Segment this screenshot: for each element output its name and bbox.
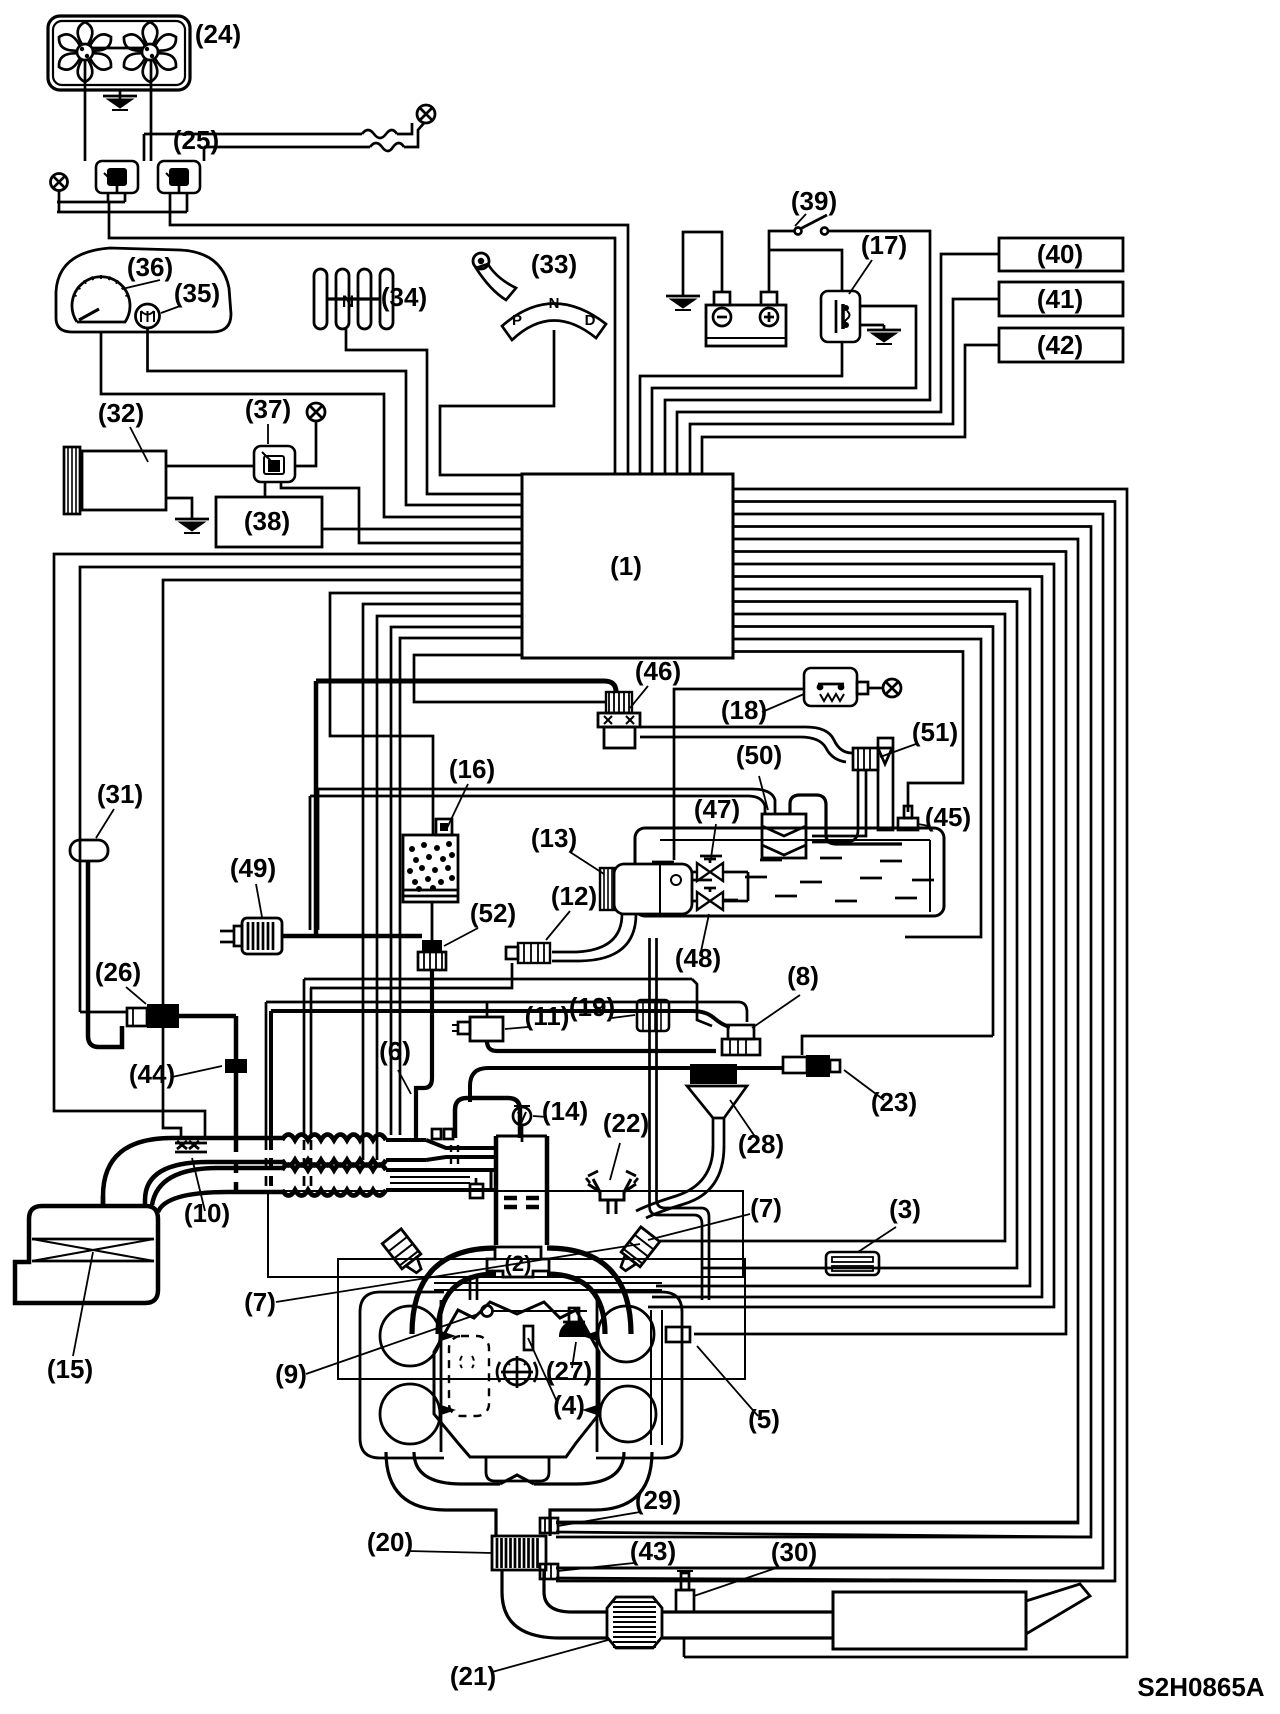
wire (12) down xyxy=(310,963,512,988)
noise relay (37) xyxy=(254,446,295,482)
svg-text:(4): (4) xyxy=(553,1390,585,1420)
leader (52) xyxy=(444,928,478,946)
leader (17) xyxy=(849,260,872,294)
hose (51) to tank xyxy=(812,770,866,842)
radio unit (32) xyxy=(82,451,166,510)
hose (11) down xyxy=(487,1041,716,1051)
svg-text:(3): (3) xyxy=(889,1194,921,1224)
fuel pump connector (45) xyxy=(898,806,918,830)
wire (29) a xyxy=(556,1521,1078,1524)
hose (13) to (12) xyxy=(552,914,636,961)
fan relay 1 (25) xyxy=(96,161,138,193)
wire ECU to canister (16) xyxy=(330,593,522,835)
bundle engine wire 2 xyxy=(656,589,1030,1286)
tailpipe xyxy=(1026,1584,1090,1634)
vacuum row 2 xyxy=(310,988,313,1190)
wire ECU to solenoid (46) xyxy=(414,655,605,702)
injector (7) left xyxy=(382,1229,428,1278)
svg-text:(34): (34) xyxy=(381,282,427,312)
svg-text:(14): (14) xyxy=(542,1096,588,1126)
svg-text:(37): (37) xyxy=(245,394,291,424)
leader (23) xyxy=(844,1070,884,1100)
leader (31) xyxy=(96,809,114,838)
bundle (23) wire xyxy=(733,627,993,1037)
sensor on lower duct xyxy=(470,1178,483,1198)
wire ECU to throttle b xyxy=(377,616,522,1160)
leader (10) xyxy=(192,1158,205,1211)
catalytic converter (21) xyxy=(607,1597,662,1648)
svg-text:(25): (25) xyxy=(173,125,219,155)
leader (47) xyxy=(711,824,716,858)
fuel tank xyxy=(635,828,944,916)
wire fan right to relay xyxy=(150,60,153,161)
pipe to muffler xyxy=(662,1612,833,1638)
bundle (43) wire b xyxy=(556,502,1115,1582)
label (31) xyxy=(97,779,143,809)
svg-text:(49): (49) xyxy=(230,853,276,883)
label (52) xyxy=(470,898,516,928)
capacitor (38) xyxy=(216,497,322,547)
leader (9) xyxy=(306,1313,481,1374)
svg-text:(33): (33) xyxy=(531,249,577,279)
label (9) xyxy=(275,1359,307,1389)
svg-text:(27): (27) xyxy=(546,1356,592,1386)
pipe through (19) xyxy=(650,938,710,1300)
svg-text:(51): (51) xyxy=(912,717,958,747)
wire y979 to (8) xyxy=(692,979,712,1026)
wire (23) right xyxy=(802,1036,993,1055)
bundle (29) wire a xyxy=(556,539,1078,1523)
leader (4) xyxy=(528,1338,558,1404)
label (29) xyxy=(635,1485,681,1515)
solenoid valve (46) xyxy=(598,692,640,748)
bundle engine wire 3 xyxy=(652,577,1042,1298)
battery ground xyxy=(666,232,722,310)
leader (19) xyxy=(612,1015,635,1018)
svg-text:(43): (43) xyxy=(630,1536,676,1566)
svg-text:(35): (35) xyxy=(174,278,220,308)
svg-text:(38): (38) xyxy=(244,506,290,536)
exhaust pipe right xyxy=(534,1452,652,1536)
svg-text:(17): (17) xyxy=(861,230,907,260)
cylinder L1 xyxy=(380,1306,440,1366)
bracket near (51) xyxy=(878,738,893,830)
fuel in tank xyxy=(640,856,934,901)
check valve (47) xyxy=(692,859,748,881)
hose (8)-(23) xyxy=(470,1068,783,1102)
wire (37) to ECU xyxy=(281,482,522,543)
bolt (18) xyxy=(883,679,901,697)
wire PND to ECU xyxy=(440,330,554,475)
label (12) xyxy=(551,881,597,911)
bundle (43) wire a xyxy=(556,514,1103,1568)
pipe to cat xyxy=(560,1612,607,1638)
leader (50) xyxy=(759,776,768,810)
wire (29) b xyxy=(556,1532,1091,1537)
svg-text:(18): (18) xyxy=(721,695,767,725)
label (34) xyxy=(381,282,427,312)
label (38) xyxy=(244,506,290,536)
svg-text:(50): (50) xyxy=(736,740,782,770)
wire (32)-(37) xyxy=(166,465,254,468)
connector box (41) xyxy=(999,282,1123,316)
svg-text:(7): (7) xyxy=(750,1193,782,1223)
fitting on duct xyxy=(432,1129,453,1139)
wire lamp to ECU xyxy=(148,328,523,505)
leader (36) xyxy=(122,280,160,289)
leader (18) xyxy=(762,694,804,712)
label (7) left xyxy=(244,1287,276,1317)
svg-text:(41): (41) xyxy=(1037,284,1083,314)
strainer (10) xyxy=(175,1141,207,1152)
bolt (43) xyxy=(540,1564,558,1579)
valve (8) xyxy=(722,1025,760,1055)
wire ECU to duct b xyxy=(400,638,522,1135)
label (39) xyxy=(791,186,837,216)
radiator fan assembly (24) xyxy=(48,16,190,90)
sensor (14) xyxy=(513,1106,531,1142)
bolt (29) xyxy=(540,1518,558,1533)
throttle shaft dashes xyxy=(451,1145,458,1166)
svg-text:(36): (36) xyxy=(127,252,173,282)
front pipe elbow xyxy=(502,1592,572,1638)
leader (48) xyxy=(700,914,709,956)
svg-text:(19): (19) xyxy=(569,992,615,1022)
hose row 4 to (8) xyxy=(271,1011,730,1190)
sensor (9) xyxy=(482,1306,588,1317)
label (1) xyxy=(610,551,642,581)
wire shifter to ECU xyxy=(346,328,522,494)
wire (42) to ECU pin8 xyxy=(702,345,999,475)
engine outline upper xyxy=(268,1191,743,1277)
engine outline lower xyxy=(338,1259,745,1379)
battery xyxy=(706,292,786,346)
svg-text:(32): (32) xyxy=(98,398,144,428)
svg-text:P: P xyxy=(512,312,522,329)
label (5) xyxy=(748,1404,780,1434)
engine block xyxy=(434,1302,599,1457)
leader (43) xyxy=(558,1563,634,1571)
svg-text:(30): (30) xyxy=(771,1537,817,1567)
hose (49) junction xyxy=(282,681,422,936)
label (20) xyxy=(367,1527,413,1557)
left bank wall xyxy=(440,1300,443,1452)
leader (28) xyxy=(730,1100,758,1141)
wire ECU to (26) xyxy=(80,567,522,1012)
svg-text:(15): (15) xyxy=(47,1354,93,1384)
right bank wall xyxy=(596,1300,599,1452)
leader (35) xyxy=(161,306,180,313)
intake arch left xyxy=(412,1248,496,1334)
label (35) xyxy=(174,278,220,308)
svg-text:(2): (2) xyxy=(505,1251,532,1276)
svg-text:(11): (11) xyxy=(525,1001,570,1031)
wire relay to ECU pin1 xyxy=(109,202,615,475)
leader (39) xyxy=(795,214,806,226)
cylinder R1 xyxy=(598,1306,654,1362)
bundle (3) wire xyxy=(703,602,1017,1269)
leader (44) xyxy=(172,1066,222,1077)
fuel rail lines xyxy=(434,1283,662,1290)
label (32) xyxy=(98,398,144,428)
cylinder L2 xyxy=(380,1384,440,1444)
label (14) xyxy=(542,1096,588,1126)
bolt near (37) xyxy=(307,403,325,421)
leader (30) xyxy=(694,1568,776,1596)
hose pair to (51) xyxy=(640,727,852,762)
svg-text:(24): (24) xyxy=(195,19,241,49)
wire ECU to throttle a xyxy=(363,604,522,1160)
label (33) xyxy=(531,249,577,279)
exhaust pipe left xyxy=(386,1452,500,1536)
label (37) xyxy=(245,394,291,424)
crank pulley (4) xyxy=(497,1356,537,1388)
wire relay17 to ECU pin3 xyxy=(640,342,842,475)
filter (28) xyxy=(636,1064,747,1218)
svg-text:(42): (42) xyxy=(1037,330,1083,360)
bellows upper (intake) xyxy=(282,1135,386,1166)
label (13) xyxy=(531,823,577,853)
leader (8) xyxy=(752,995,800,1028)
wire switch-battery xyxy=(769,231,794,292)
svg-text:(39): (39) xyxy=(791,186,837,216)
label (17) xyxy=(861,230,907,260)
oil pressure switch (18) xyxy=(804,668,868,706)
wire (43) b xyxy=(556,1578,1115,1581)
PND selector (33) xyxy=(473,253,606,340)
wire relay17 to ECU pin4 xyxy=(652,306,916,475)
label (51) xyxy=(912,717,958,747)
sensor (22) xyxy=(586,1171,638,1214)
duct elbow outer xyxy=(103,1138,282,1206)
connector box (40) xyxy=(999,238,1123,271)
leader (5) xyxy=(697,1346,758,1416)
label (49) xyxy=(230,853,276,883)
ECU box (1) xyxy=(522,474,733,658)
label (4) xyxy=(553,1390,585,1420)
svg-text:(26): (26) xyxy=(95,957,141,987)
front pipe down xyxy=(502,1570,544,1592)
wire relay to ECU pin2 xyxy=(170,212,628,475)
left intake ports xyxy=(441,1331,456,1415)
canister (16) xyxy=(403,819,458,902)
svg-text:(8): (8) xyxy=(787,961,819,991)
damper (27) xyxy=(560,1308,588,1336)
label (18) xyxy=(721,695,767,725)
svg-text:(22): (22) xyxy=(603,1108,649,1138)
wire (37)-(38) xyxy=(264,482,267,497)
leader (20) xyxy=(408,1551,492,1553)
wire fan left to relay xyxy=(84,60,87,161)
label (21) xyxy=(450,1661,496,1691)
wire to (26) xyxy=(80,1011,127,1014)
filter (19) xyxy=(637,1000,669,1031)
figure number xyxy=(1137,1672,1264,1702)
leader (13) xyxy=(570,852,604,874)
ignition switch (39) xyxy=(795,215,829,235)
wire battery-relay17 xyxy=(769,250,842,291)
bundle engine wire 4 xyxy=(648,564,1054,1307)
svg-text:(7): (7) xyxy=(244,1287,276,1317)
right intake ports xyxy=(582,1331,597,1415)
wire (38) to ECU xyxy=(322,528,522,531)
leader (7) right xyxy=(648,1214,750,1240)
connector (5) xyxy=(666,1327,690,1342)
label (23) xyxy=(871,1087,917,1117)
wire (30) down xyxy=(683,1638,686,1657)
svg-text:(1): (1) xyxy=(610,551,642,581)
engine inner wall right xyxy=(651,1310,662,1445)
svg-text:(10): (10) xyxy=(184,1198,230,1228)
label (28) xyxy=(738,1129,784,1159)
label (48) xyxy=(675,943,721,973)
cylinder R2 xyxy=(600,1386,656,1442)
label (43) xyxy=(630,1536,676,1566)
wire ECU to fuel pump (45) xyxy=(733,652,963,813)
speaker flange of (32) xyxy=(64,447,80,514)
label (26) xyxy=(95,957,141,987)
check connector (51) xyxy=(853,748,892,770)
leader (7) left xyxy=(276,1244,640,1302)
label (25) xyxy=(173,125,219,155)
wire (18) to tank xyxy=(674,689,804,860)
leader (51) xyxy=(880,744,916,757)
oil strainer dashed xyxy=(449,1336,489,1416)
label (8) xyxy=(787,961,819,991)
svg-text:(28): (28) xyxy=(738,1129,784,1159)
wire ECU to (10) outer xyxy=(54,554,522,1139)
bracket (2) xyxy=(487,1247,549,1277)
connector (52) xyxy=(418,940,446,970)
leader (45) xyxy=(918,824,929,826)
oil pan xyxy=(486,1457,549,1481)
wire ECU to duct a xyxy=(391,627,522,1135)
svg-text:(47): (47) xyxy=(694,794,740,824)
collector notch xyxy=(500,1475,534,1484)
oxygen sensor (30) xyxy=(676,1571,694,1612)
leader (37) xyxy=(267,424,269,444)
label (11) xyxy=(525,1001,570,1031)
wire (40) to ECU pin6 xyxy=(677,254,999,475)
svg-text:(29): (29) xyxy=(635,1485,681,1515)
leader (32) xyxy=(130,427,148,462)
label (7) right xyxy=(750,1193,782,1223)
duct lower tube top xyxy=(152,1168,282,1205)
svg-text:N: N xyxy=(549,295,560,312)
svg-text:N: N xyxy=(342,292,354,311)
leader (29) xyxy=(558,1512,640,1526)
leader (21) xyxy=(492,1640,608,1672)
svg-text:D: D xyxy=(585,312,596,329)
svg-text:(20): (20) xyxy=(367,1527,413,1557)
svg-text:(23): (23) xyxy=(871,1087,917,1117)
label (19) xyxy=(569,992,615,1022)
injector (7) right xyxy=(614,1227,660,1276)
duct lower after bellows xyxy=(386,1170,494,1190)
label (6) xyxy=(379,1036,411,1066)
connector (12) xyxy=(506,943,550,963)
leader (6) xyxy=(398,1070,411,1094)
bundle engine wire 1 xyxy=(660,614,1005,1241)
ground at fan xyxy=(103,90,137,110)
wire bolt-(37) xyxy=(295,421,316,466)
wire ECU to (10) inner xyxy=(163,580,522,1139)
label (44) xyxy=(129,1059,175,1089)
bundle tank area wire xyxy=(733,639,981,937)
fuel filter (50) xyxy=(762,814,806,858)
svg-text:(46): (46) xyxy=(635,656,681,686)
label (46) xyxy=(635,656,681,686)
wire cluster gauge to ECU xyxy=(101,332,522,517)
svg-text:(21): (21) xyxy=(450,1661,496,1691)
label (16) xyxy=(449,754,495,784)
wire (18) bolt xyxy=(868,687,883,690)
leader (26) xyxy=(126,987,146,1004)
bolt top-left xyxy=(51,174,68,191)
right bank cover xyxy=(596,1292,682,1458)
main relay (17) xyxy=(821,291,860,342)
connector (44) xyxy=(225,1059,247,1073)
intake arch right xyxy=(547,1248,631,1334)
bolt wire break top xyxy=(144,123,424,161)
purge pump (49) xyxy=(220,918,282,954)
bolt top-right xyxy=(417,105,435,123)
label (36) xyxy=(127,252,173,282)
label (47) xyxy=(694,794,740,824)
svg-text:S2H0865A: S2H0865A xyxy=(1137,1672,1264,1702)
hose (49) junction to (46) xyxy=(316,681,616,692)
label (10) xyxy=(184,1198,230,1228)
leader (22) xyxy=(610,1143,620,1180)
fuel feed pair xyxy=(470,1277,477,1300)
connector (26) xyxy=(127,1004,179,1028)
shift gate (34) xyxy=(314,269,393,329)
svg-text:(44): (44) xyxy=(129,1059,175,1089)
throttle column xyxy=(496,1136,547,1245)
label (24) xyxy=(195,19,241,49)
svg-text:(52): (52) xyxy=(470,898,516,928)
svg-text:(5): (5) xyxy=(748,1404,780,1434)
label (30) xyxy=(771,1537,817,1567)
duct elbow inner xyxy=(145,1162,282,1206)
valve (31) xyxy=(70,840,108,861)
svg-text:(45): (45) xyxy=(925,802,971,832)
leader (15) xyxy=(73,1252,93,1356)
instrument cluster (36) xyxy=(56,248,231,332)
leader (14) xyxy=(533,1116,547,1117)
hose (50) to tank xyxy=(790,795,902,844)
fuel pump assembly (13) xyxy=(600,864,692,914)
leader (46) xyxy=(630,686,648,708)
wire (41) to ECU pin7 xyxy=(690,299,999,475)
hose (52) to intake xyxy=(416,970,432,1140)
label (50) xyxy=(736,740,782,770)
leader (49) xyxy=(256,884,262,917)
fan relay 2 (25) xyxy=(158,161,200,193)
hose (31) down xyxy=(88,861,122,1047)
label (22) xyxy=(603,1108,649,1138)
hose (26) right xyxy=(179,1016,236,1059)
bundle (30) wire xyxy=(684,489,1127,1657)
charcoal in canister xyxy=(407,841,455,892)
canister tube to (52) xyxy=(431,902,434,940)
bellows lower xyxy=(282,1165,386,1196)
leader (11) xyxy=(505,1027,528,1029)
duct lower tube bottom xyxy=(158,1192,282,1212)
relay17 ground xyxy=(860,325,901,344)
svg-text:(48): (48) xyxy=(675,943,721,973)
flex pipe (20) xyxy=(492,1536,546,1570)
